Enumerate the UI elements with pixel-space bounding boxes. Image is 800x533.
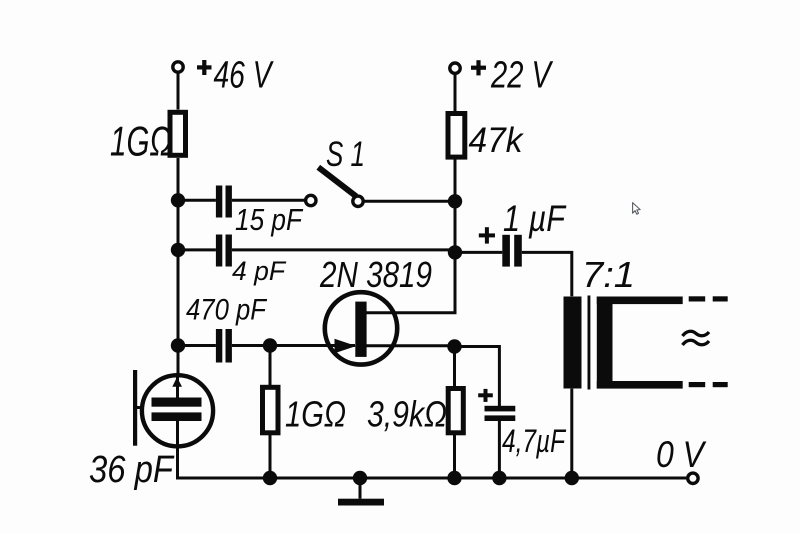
svg-text:S 1: S 1 [326, 135, 365, 174]
svg-text:36 pF: 36 pF [89, 449, 175, 491]
svg-text:1GΩ: 1GΩ [110, 118, 172, 165]
svg-text:47k: 47k [469, 121, 524, 160]
svg-text:1 µF: 1 µF [503, 198, 567, 239]
svg-text:15 pF: 15 pF [235, 202, 304, 237]
svg-text:1GΩ: 1GΩ [285, 394, 346, 435]
svg-text:3,9kΩ: 3,9kΩ [367, 394, 447, 435]
svg-text:470 pF: 470 pF [186, 294, 267, 327]
svg-text:2N 3819: 2N 3819 [319, 254, 432, 295]
svg-text:4,7µF: 4,7µF [502, 423, 567, 459]
svg-text:0 V: 0 V [656, 434, 707, 475]
svg-text:46 V: 46 V [214, 54, 275, 96]
svg-text:22 V: 22 V [490, 55, 554, 97]
svg-text:7:1: 7:1 [582, 254, 635, 295]
svg-text:4 pF: 4 pF [232, 256, 286, 286]
